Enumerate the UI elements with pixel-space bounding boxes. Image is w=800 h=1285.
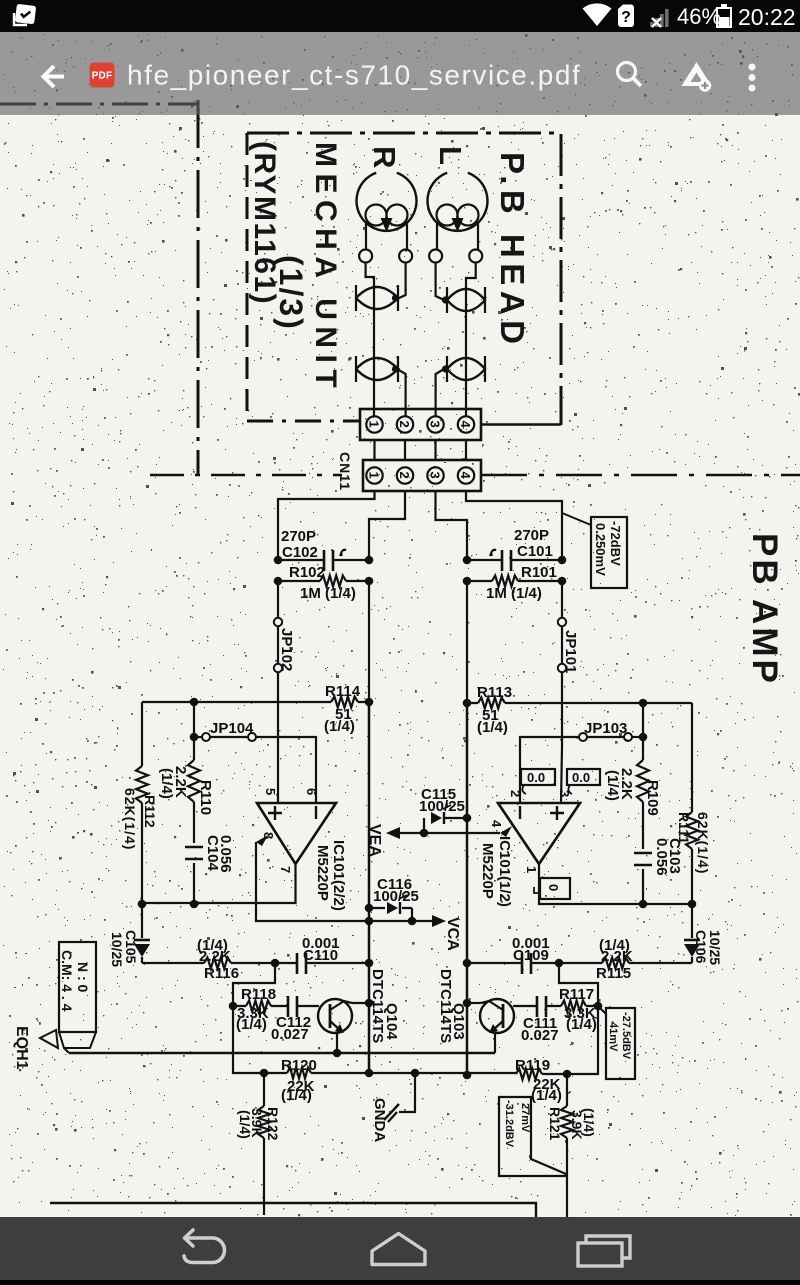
voltage callout 0 at pin1	[540, 878, 570, 899]
svg-text:JP101: JP101	[562, 630, 579, 673]
status icon download-done	[14, 5, 35, 25]
svg-text:(1/4): (1/4)	[566, 1016, 597, 1033]
svg-text:C110: C110	[303, 947, 338, 964]
svg-text:1M (1/4): 1M (1/4)	[486, 585, 542, 602]
note box N:0 C.M:4.4	[59, 942, 96, 1032]
wire right outer bus	[691, 703, 693, 904]
svg-text:R102: R102	[289, 564, 325, 581]
node left bus / feedback	[138, 900, 147, 909]
svg-text:R101: R101	[521, 564, 557, 581]
svg-text:CN11: CN11	[337, 452, 353, 491]
svg-text:(1/4): (1/4)	[531, 1087, 562, 1104]
svg-text:27mV: 27mV	[519, 1103, 531, 1133]
resistor R111 62K	[686, 812, 698, 849]
svg-text:R110: R110	[197, 780, 214, 815]
capacitor C106 10/25	[691, 904, 693, 963]
ground GNDA	[399, 1073, 415, 1112]
twisted-pair R channel lower	[356, 358, 398, 380]
svg-text:M5220P: M5220P	[479, 843, 496, 899]
wire R- line down	[368, 581, 370, 702]
svg-text:R109: R109	[644, 780, 661, 816]
svg-text:-31.2dBV: -31.2dBV	[503, 1100, 515, 1148]
twisted-pair R channel upper	[356, 287, 398, 309]
wire pin2 to R- line	[369, 491, 405, 556]
wire Q103 emitter to EQH1 line	[494, 1033, 496, 1053]
svg-text:(1/4): (1/4)	[236, 1016, 267, 1033]
capacitor C111 0.027	[537, 996, 546, 1017]
mecha unit connector	[360, 409, 481, 440]
resistor R121 3.9K	[566, 1074, 568, 1217]
svg-text:0: 0	[546, 884, 561, 891]
svg-text:270P: 270P	[281, 528, 316, 545]
P.B head R channel symbol	[357, 173, 417, 249]
wire L+ line down	[561, 581, 563, 618]
nav recents	[586, 1236, 630, 1258]
status icon wifi	[583, 3, 612, 26]
node dots C102/R102 R channel	[274, 556, 283, 565]
op-amp IC101 (1/2) right	[498, 803, 580, 864]
svg-text:R122: R122	[265, 1107, 281, 1141]
svg-text:(1/3): (1/3)	[273, 255, 309, 331]
wire C109 node to R117 node	[559, 963, 598, 1006]
op-amp IC101 (2/2) left	[257, 803, 336, 864]
svg-text:10/25: 10/25	[707, 930, 723, 965]
wire right opamp output to feedback bus	[539, 864, 692, 904]
svg-text:270P: 270P	[514, 527, 549, 544]
svg-text:VCA: VCA	[444, 917, 461, 951]
svg-text:Q103: Q103	[450, 1003, 467, 1040]
sheet border dash-dot top-left	[0, 103, 198, 106]
svg-text:(1/4): (1/4)	[581, 1108, 597, 1137]
svg-text:3: 3	[428, 472, 443, 479]
svg-text:0.056: 0.056	[217, 835, 234, 873]
callout box -72dBV 0.250mV	[591, 517, 627, 588]
svg-text:10/25: 10/25	[109, 932, 125, 967]
wire L- line down	[466, 581, 468, 703]
wire JP102 to opamp pin5	[277, 672, 279, 803]
wire L- line to transistor area	[466, 703, 469, 1075]
resistor R110 2.2K	[188, 760, 200, 802]
svg-text:1: 1	[367, 421, 382, 428]
wire lower pair to connector pin 2	[397, 369, 406, 416]
svg-text:1: 1	[367, 472, 382, 479]
sheet partition dash-dot at connector level right	[481, 474, 800, 477]
resistor R112 62K	[136, 766, 148, 803]
app bar overflow menu	[749, 64, 756, 71]
nav back	[184, 1238, 224, 1263]
svg-text:41mV: 41mV	[607, 1022, 619, 1052]
svg-text:20:22: 20:22	[738, 4, 796, 30]
svg-text:C101: C101	[517, 543, 553, 560]
node right bus / feedback	[688, 900, 697, 909]
svg-text:62K(1/4): 62K(1/4)	[122, 788, 138, 850]
callout box -27.5dBV 41mV	[598, 1006, 606, 1014]
svg-text:JP103: JP103	[584, 720, 627, 737]
wire left opamp pin8 to VCA line	[256, 842, 434, 921]
resistor R109 2.2K	[637, 760, 649, 802]
sheet partition dash-dot at connector level left	[150, 474, 342, 477]
status icon sim question	[618, 5, 634, 28]
twisted-pair L channel upper	[447, 289, 485, 311]
wire left feedback bus	[193, 702, 195, 904]
svg-text:L: L	[433, 146, 468, 165]
wire JP101 to opamp pin3	[561, 672, 562, 803]
svg-text:0.027: 0.027	[521, 1027, 559, 1044]
svg-text:2.2K: 2.2K	[618, 768, 635, 800]
svg-text:6: 6	[304, 788, 319, 795]
wire right bias line	[467, 702, 692, 704]
wire R head right lead into upper pair	[397, 263, 406, 300]
EQH1 flag	[40, 1030, 58, 1048]
svg-text:R121: R121	[547, 1107, 563, 1141]
svg-text:P.B HEAD: P.B HEAD	[494, 152, 531, 349]
transistor Q103 DTC114TS	[480, 999, 514, 1033]
svg-text:100/25: 100/25	[373, 888, 419, 905]
svg-text:(1/4): (1/4)	[281, 1087, 312, 1104]
nav bar	[0, 1217, 800, 1280]
twisted-pair L channel lower	[447, 358, 485, 380]
status bar	[0, 0, 800, 32]
connector CN11	[363, 460, 481, 491]
status icon battery	[717, 8, 731, 27]
svg-text:2.2K: 2.2K	[172, 766, 189, 798]
svg-text:7: 7	[278, 866, 293, 873]
svg-text:1: 1	[524, 866, 539, 873]
svg-text:IC101(1/2): IC101(1/2)	[496, 836, 513, 907]
wire Q103 collector	[467, 1002, 481, 1004]
wire L head left lead into upper pair	[436, 263, 444, 301]
resistor R122 3.9K	[263, 1073, 265, 1215]
svg-text:-27.5dBV: -27.5dBV	[620, 1012, 632, 1060]
head terminal pins	[359, 250, 372, 263]
svg-text:PDF: PDF	[92, 71, 113, 82]
leader to -72dBV callout	[562, 513, 591, 525]
wire R head left lead to pair centre	[366, 263, 374, 417]
wires between connectors	[375, 440, 467, 460]
svg-text:2: 2	[397, 472, 412, 479]
wire pin4 to L+ line	[466, 491, 562, 556]
wire JP103 to opamp pin2	[520, 737, 579, 803]
app bar translucent	[0, 32, 800, 115]
app bar add-to-drive icon	[682, 62, 712, 86]
pin4 arrow	[500, 826, 512, 837]
svg-text:R118: R118	[241, 986, 276, 1003]
svg-text:3: 3	[428, 421, 443, 428]
node dots C101/R101 L channel	[463, 556, 472, 565]
wire lower pair to connector pin 3	[436, 369, 444, 416]
wire pin3 to L- line	[436, 491, 468, 556]
svg-text:R115: R115	[596, 965, 631, 982]
svg-text:M5220P: M5220P	[314, 845, 331, 901]
callout box 27mV -31.2dBV	[499, 1097, 566, 1176]
capacitor C105 10/25	[141, 904, 143, 963]
net EQH1 line	[69, 1052, 495, 1054]
svg-text:R111: R111	[676, 812, 692, 844]
transistor Q104 DTC114TS	[318, 999, 352, 1033]
svg-text:MECHA UNIT: MECHA UNIT	[309, 142, 342, 394]
wire JP104 to opamp pin6	[256, 737, 316, 803]
svg-text:62K(1/4): 62K(1/4)	[695, 812, 711, 874]
svg-text:2: 2	[397, 421, 412, 428]
svg-text:JP104: JP104	[210, 720, 254, 737]
svg-text:C.M: 4 . 4: C.M: 4 . 4	[59, 950, 75, 1012]
wire R120/R119 line	[233, 1006, 598, 1074]
svg-text:100/25: 100/25	[419, 798, 465, 815]
net VCA arrow	[408, 917, 417, 926]
svg-text:R116: R116	[204, 965, 239, 982]
svg-text:N : 0: N : 0	[75, 962, 91, 993]
svg-text:JP102: JP102	[278, 628, 295, 671]
svg-text:(1/4): (1/4)	[477, 719, 508, 736]
jumper JP101	[558, 618, 566, 626]
svg-text:?: ?	[621, 9, 631, 26]
svg-text:3.9K: 3.9K	[249, 1108, 265, 1138]
nav home	[372, 1234, 425, 1265]
wire C110 node to R118 node	[233, 963, 275, 1006]
svg-text:46%: 46%	[677, 4, 721, 29]
svg-text:0.250mV: 0.250mV	[593, 523, 608, 576]
P.B head L channel symbol	[428, 173, 488, 249]
voltage callout 0.0 pin2	[521, 769, 555, 785]
stub mecha connector to box edge	[481, 423, 561, 425]
svg-text:EQH1: EQH1	[13, 1026, 30, 1070]
wire Q104 emitter to EQH1 line	[336, 1033, 338, 1053]
wire right feedback bus	[642, 703, 644, 904]
wire left bias line	[142, 701, 369, 703]
svg-text:hfe_pioneer_ct-s710_service.pd: hfe_pioneer_ct-s710_service.pdf	[127, 60, 581, 91]
svg-text:GNDA: GNDA	[371, 1098, 388, 1142]
wire left opamp output to feedback bus	[142, 864, 296, 903]
svg-text:PB AMP: PB AMP	[745, 533, 784, 686]
svg-text:R: R	[367, 146, 402, 168]
capacitor C112 0.027	[288, 996, 297, 1017]
capacitor C104 0.056	[185, 847, 203, 859]
MECHA UNIT dashed box	[247, 133, 561, 425]
net VEA arrow	[420, 829, 429, 838]
svg-text:0.027: 0.027	[271, 1026, 309, 1043]
jumper JP102	[274, 618, 282, 626]
capacitor C103 0.056	[634, 853, 652, 865]
pin8 arrow	[256, 835, 268, 846]
svg-text:4: 4	[458, 421, 473, 429]
svg-text:-72dBV: -72dBV	[608, 521, 623, 566]
sheet border dash-dot vertical line	[197, 100, 200, 475]
sheet bottom border	[50, 1203, 536, 1217]
svg-text:0.0: 0.0	[572, 770, 590, 785]
wire L head right lead to pair centre	[466, 263, 476, 417]
svg-text:R120: R120	[281, 1057, 317, 1074]
voltage callout 0.0 pin3	[567, 769, 600, 785]
svg-text:(1/4): (1/4)	[324, 718, 355, 735]
svg-text:4: 4	[489, 820, 504, 828]
svg-text:C105: C105	[123, 930, 139, 964]
svg-text:4: 4	[458, 472, 473, 480]
app bar back arrow	[44, 66, 65, 87]
app bar search icon	[618, 63, 636, 81]
svg-text:Q104: Q104	[383, 1003, 400, 1040]
wire left outer bus	[141, 702, 143, 904]
svg-text:C102: C102	[282, 544, 318, 561]
svg-text:R112: R112	[142, 795, 158, 828]
app bar pdf icon	[90, 63, 115, 88]
svg-text:2: 2	[508, 790, 523, 797]
svg-text:0.0: 0.0	[527, 770, 545, 785]
svg-text:5: 5	[263, 788, 278, 795]
wire R+ line down	[277, 581, 279, 618]
svg-text:1M (1/4): 1M (1/4)	[300, 585, 356, 602]
wire pin1 to R+ line	[278, 491, 375, 556]
status icon signal bars	[650, 9, 669, 27]
svg-text:C106: C106	[693, 930, 709, 964]
svg-text:IC101(2/2): IC101(2/2)	[330, 840, 347, 911]
wire Q104 collector	[352, 1002, 369, 1004]
wire R- line to transistor area	[368, 702, 371, 1073]
node dots bottom line	[260, 1069, 269, 1078]
